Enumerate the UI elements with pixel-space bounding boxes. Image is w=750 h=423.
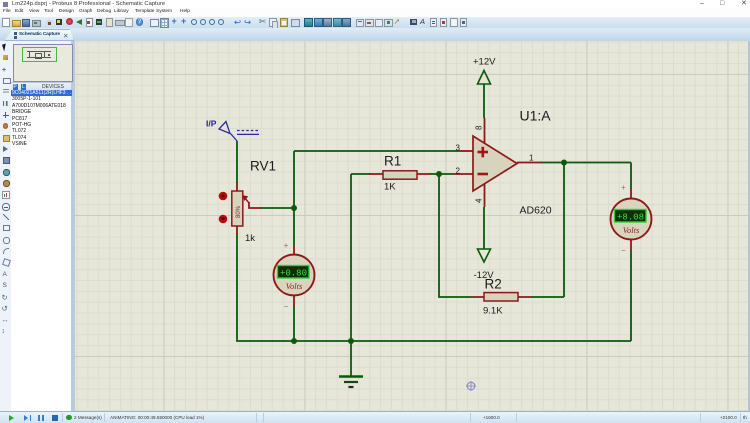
svg-text:1k: 1k: [245, 233, 255, 244]
svg-text:+: +: [284, 241, 289, 250]
svg-text:80%: 80%: [236, 205, 242, 218]
svg-text:2: 2: [456, 167, 461, 176]
svg-text:AD620: AD620: [520, 205, 552, 217]
svg-text:1K: 1K: [384, 182, 396, 193]
svg-text:RV1: RV1: [250, 159, 276, 174]
svg-text:+: +: [621, 183, 626, 192]
svg-text:+8.08: +8.08: [617, 213, 644, 223]
svg-text:4: 4: [475, 198, 484, 203]
svg-text:+12V: +12V: [473, 57, 496, 68]
svg-text:8: 8: [475, 125, 484, 130]
svg-text:Volts: Volts: [286, 281, 303, 291]
svg-text:I/P: I/P: [206, 119, 217, 129]
svg-text:R1: R1: [384, 154, 401, 169]
svg-text:Volts: Volts: [623, 225, 640, 235]
svg-text:U1:A: U1:A: [520, 108, 552, 124]
svg-text:+0.80: +0.80: [280, 269, 307, 279]
svg-text:3: 3: [456, 144, 461, 153]
svg-text:9.1K: 9.1K: [483, 306, 503, 317]
svg-text:-12V: -12V: [474, 270, 495, 281]
svg-text:−: −: [621, 246, 626, 255]
svg-text:−: −: [284, 302, 289, 311]
svg-text:1: 1: [529, 154, 534, 163]
